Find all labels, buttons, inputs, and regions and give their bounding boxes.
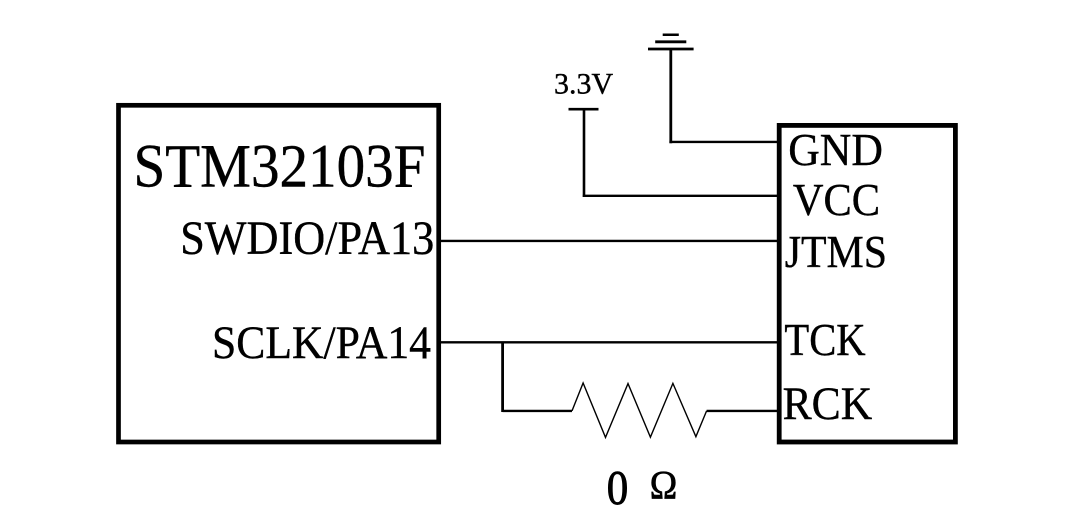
svg-text:SWDIO/PA13: SWDIO/PA13 <box>180 212 434 265</box>
svg-text:VCC: VCC <box>793 174 880 225</box>
wire SWDIO/PA13 to JTMS <box>439 240 779 242</box>
wire 3.3V vertical <box>583 109 586 197</box>
wire branch to resistor <box>503 410 572 412</box>
wire SCLK/PA14 to TCK <box>439 341 779 343</box>
svg-text:GND: GND <box>788 124 883 175</box>
wire resistor to RCK <box>707 410 779 412</box>
ground symbol <box>648 35 694 49</box>
svg-text:3.3V: 3.3V <box>554 68 614 101</box>
svg-text:JTMS: JTMS <box>785 226 887 277</box>
svg-text:STM32103F: STM32103F <box>134 133 426 200</box>
wire branch vertical at node <box>501 342 504 412</box>
wire GND net horizontal <box>669 141 779 143</box>
wire VCC net horizontal <box>583 195 779 197</box>
svg-text:0: 0 <box>607 462 629 512</box>
wire ground vertical <box>669 49 672 143</box>
svg-text:SCLK/PA14: SCLK/PA14 <box>212 317 431 369</box>
resistor R1 zigzag <box>572 383 707 437</box>
MCU box STM32103F <box>119 105 439 442</box>
power 3.3V bar <box>569 108 599 111</box>
connector box J1 <box>779 125 955 442</box>
svg-text:TCK: TCK <box>784 314 865 365</box>
svg-text:RCK: RCK <box>783 379 873 430</box>
svg-text:Ω: Ω <box>650 463 678 508</box>
